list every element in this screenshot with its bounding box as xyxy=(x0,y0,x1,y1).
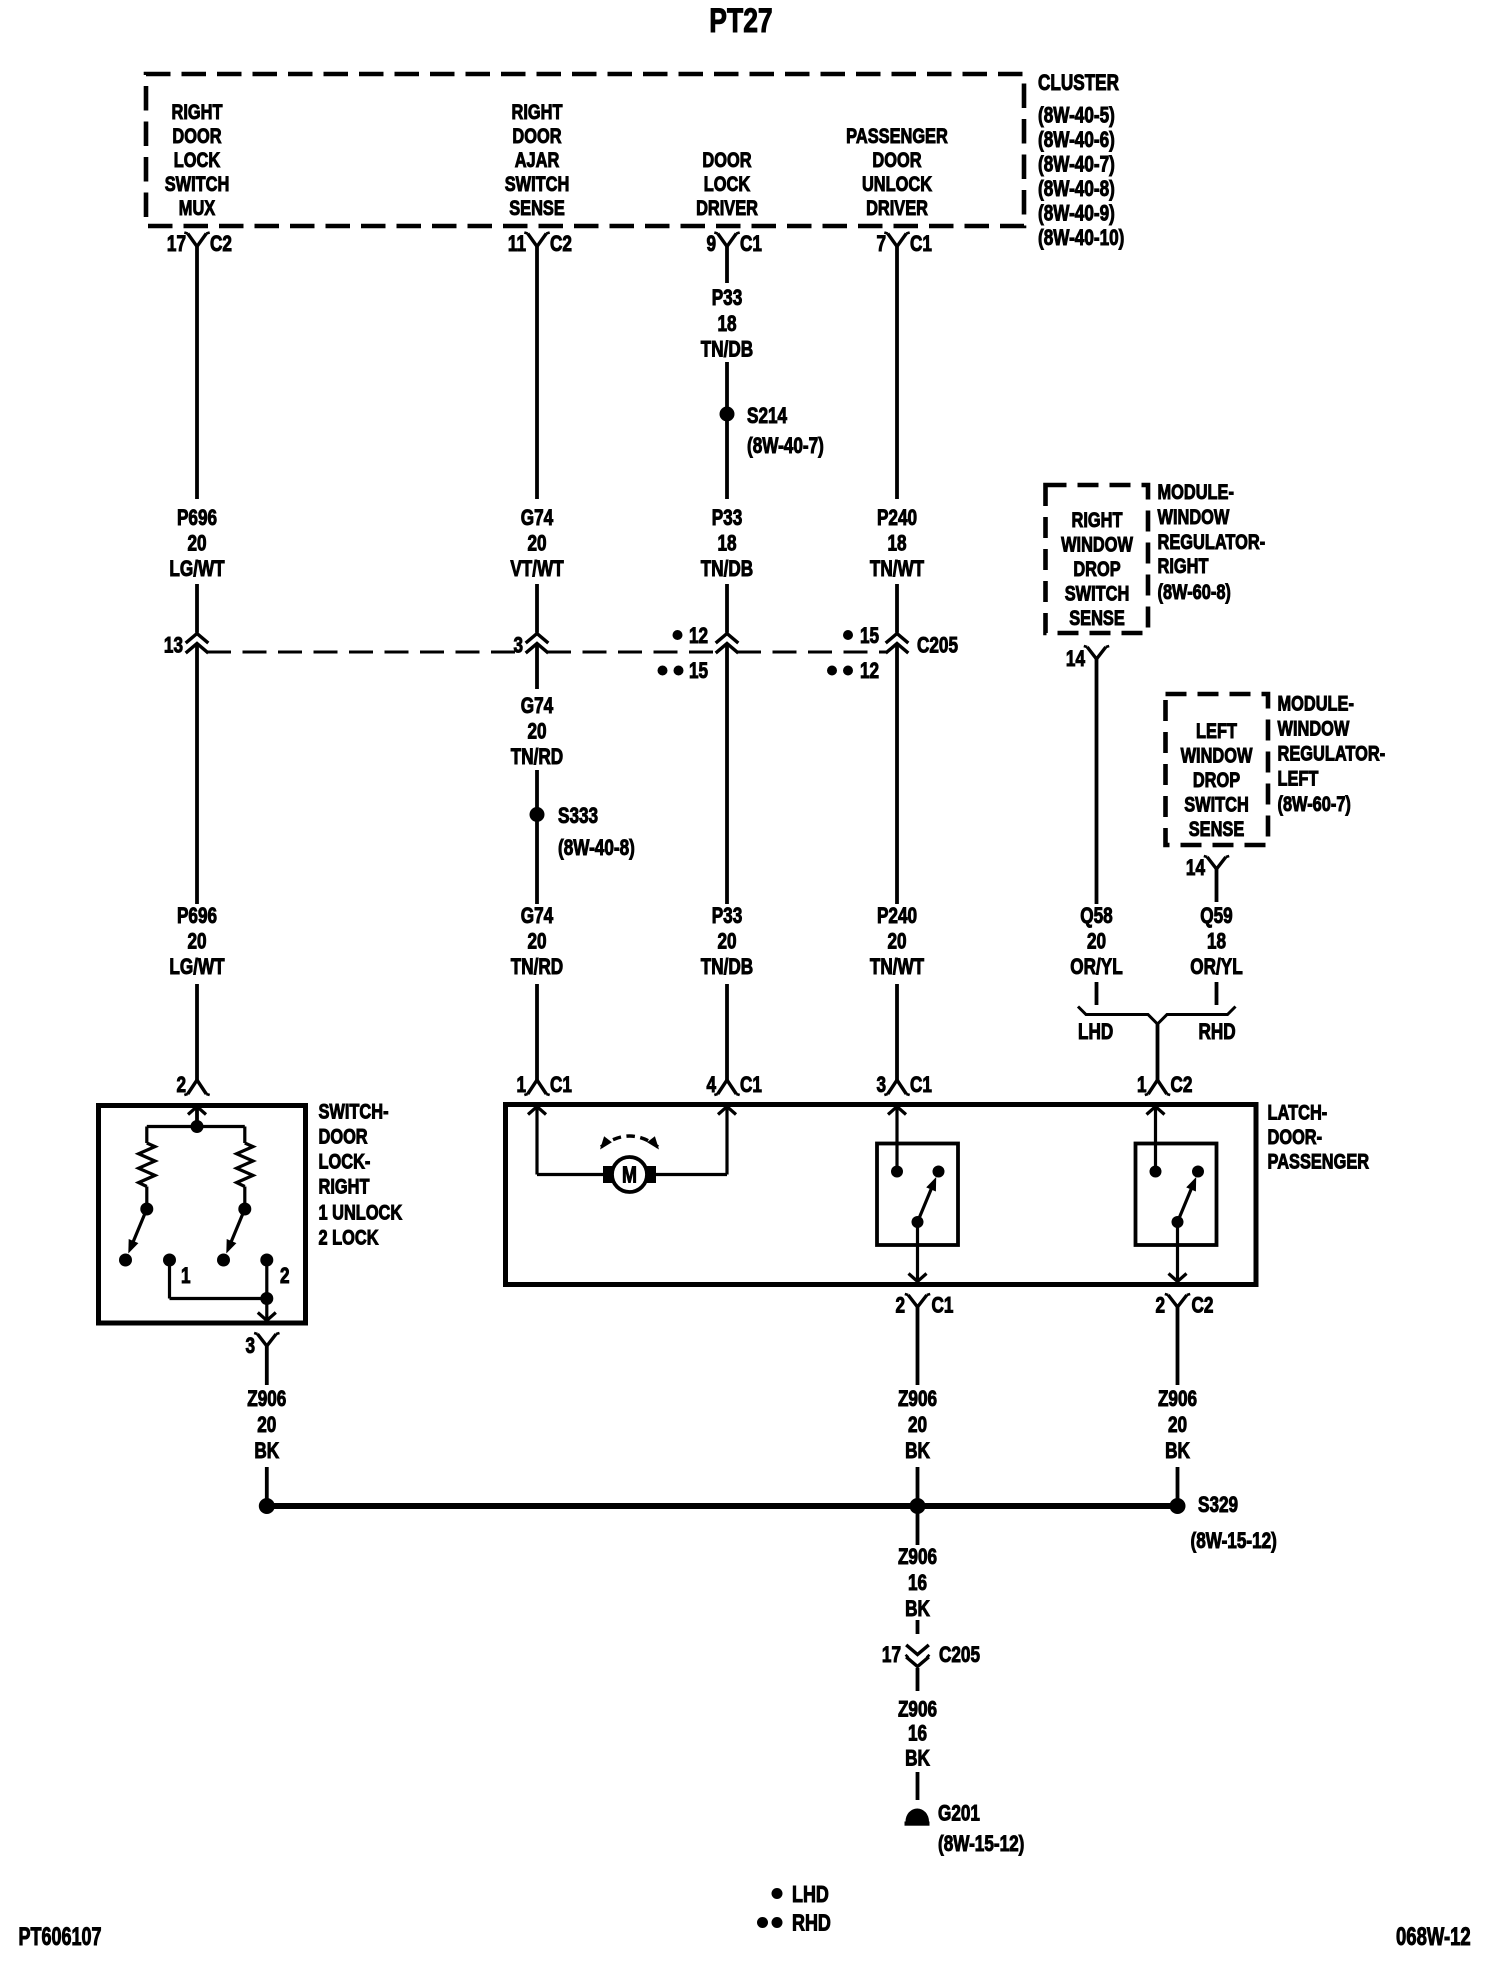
footer right 068W-12 xyxy=(1396,1922,1471,1950)
svg-text:OR/YL: OR/YL xyxy=(1190,955,1242,980)
latch-door-passenger box xyxy=(506,1105,1257,1285)
svg-text:3: 3 xyxy=(245,1334,255,1359)
svg-text:LG/WT: LG/WT xyxy=(169,557,224,582)
wire P33 below label with splice xyxy=(725,362,729,499)
svg-text:DROP: DROP xyxy=(1193,768,1240,791)
latch switch 2 contact xyxy=(1192,1166,1204,1178)
C205 connector chevrons x=197 xyxy=(186,634,209,654)
svg-text:SWITCH: SWITCH xyxy=(1184,793,1249,816)
wire segment above C205 x=897 xyxy=(895,584,899,633)
legend LHD xyxy=(772,1882,829,1908)
svg-text:WINDOW: WINDOW xyxy=(1158,505,1230,528)
latch pin 1 C2 xyxy=(1137,1073,1192,1098)
svg-text:C1: C1 xyxy=(740,232,762,257)
svg-text:Z906: Z906 xyxy=(247,1387,286,1412)
svg-text:BK: BK xyxy=(905,1439,930,1464)
wire segment above C205 x=727 xyxy=(725,584,729,633)
wire label Q59 18 OR/YL xyxy=(1190,904,1242,980)
svg-text:PT27: PT27 xyxy=(709,2,772,40)
junction node (pin3) xyxy=(260,1292,273,1305)
box label RIGHT WINDOW DROP SWITCH SENSE xyxy=(1061,508,1133,629)
svg-text:P33: P33 xyxy=(712,904,743,929)
cluster pin label: RIGHT DOOR LOCK SWITCH MUX xyxy=(165,100,230,219)
wire segment to pin x=897 xyxy=(895,984,899,1080)
svg-text:LATCH-: LATCH- xyxy=(1268,1101,1328,1124)
title PT27 xyxy=(709,2,772,40)
wire label Z906 20 BK (mid) xyxy=(898,1387,937,1464)
svg-text:C2: C2 xyxy=(550,232,572,257)
svg-text:17: 17 xyxy=(882,1643,901,1668)
module window regulator left box (dashed) xyxy=(1166,694,1269,845)
wire label Q58 20 OR/YL xyxy=(1070,904,1122,980)
svg-text:Z906: Z906 xyxy=(898,1545,937,1570)
svg-text:2 LOCK: 2 LOCK xyxy=(319,1226,379,1249)
wire Q58 stub below label xyxy=(1095,982,1099,1005)
resistor (unlock side) xyxy=(139,1127,155,1204)
svg-text:(8W-40-5): (8W-40-5) xyxy=(1038,104,1115,129)
C205 connector chevrons x=727 xyxy=(716,634,739,654)
svg-text:P33: P33 xyxy=(712,286,743,311)
svg-text:C205: C205 xyxy=(939,1643,980,1668)
module name MODULE-WINDOW REGULATOR-RIGHT xyxy=(1158,480,1266,603)
svg-text:WINDOW: WINDOW xyxy=(1181,744,1253,767)
C205 pin 12 (RHD) col4 xyxy=(827,659,879,684)
C205 pin 15 (LHD) col4 xyxy=(843,624,879,649)
latch switch 2 entry xyxy=(1147,1107,1165,1178)
svg-text:15: 15 xyxy=(689,659,708,684)
cluster pin label: DOOR LOCK DRIVER xyxy=(696,148,758,219)
switch box name SWITCH-DOOR LOCK-RIGHT xyxy=(319,1100,403,1249)
svg-text:TN/DB: TN/DB xyxy=(701,338,753,363)
svg-text:DOOR: DOOR xyxy=(172,124,221,147)
svg-text:DOOR: DOOR xyxy=(319,1125,368,1148)
svg-text:G74: G74 xyxy=(521,694,553,719)
svg-text:1 UNLOCK: 1 UNLOCK xyxy=(319,1201,403,1224)
svg-text:P696: P696 xyxy=(177,904,217,929)
wire P696 upper (col1) xyxy=(195,247,199,500)
wire Z906 from latch C1 xyxy=(916,1307,920,1385)
svg-text:7: 7 xyxy=(876,232,886,257)
svg-text:P240: P240 xyxy=(877,506,917,531)
wire label P33 20 TN/DB (lower) xyxy=(701,904,753,980)
svg-text:18: 18 xyxy=(887,532,906,557)
wire Z906 from switch xyxy=(265,1346,269,1385)
svg-text:SWITCH-: SWITCH- xyxy=(319,1100,389,1123)
svg-text:14: 14 xyxy=(1066,647,1085,672)
latch switch 1 entry xyxy=(888,1107,906,1178)
footer left PT606107 xyxy=(19,1922,102,1951)
svg-text:20: 20 xyxy=(257,1413,276,1438)
latch switch 2 exit wire xyxy=(1169,1222,1187,1282)
latch switch 1 exit wire xyxy=(909,1222,927,1282)
svg-text:P240: P240 xyxy=(877,904,917,929)
svg-text:SWITCH: SWITCH xyxy=(1065,582,1130,605)
switch-door lock-right box xyxy=(99,1106,306,1324)
svg-text:S214: S214 xyxy=(747,404,787,429)
svg-text:C1: C1 xyxy=(740,1073,762,1098)
svg-text:DROP: DROP xyxy=(1073,557,1120,580)
latch switch 1 box xyxy=(877,1144,958,1246)
svg-text:TN/DB: TN/DB xyxy=(701,955,753,980)
svg-text:Q59: Q59 xyxy=(1200,904,1232,929)
cluster name and sheet refs xyxy=(1038,71,1124,251)
svg-text:16: 16 xyxy=(908,1571,927,1596)
svg-text:DOOR: DOOR xyxy=(512,124,561,147)
label RHD xyxy=(1199,1020,1236,1045)
svg-text:Z906: Z906 xyxy=(1158,1387,1197,1412)
latch switch 1 contact xyxy=(933,1166,945,1178)
svg-text:RIGHT: RIGHT xyxy=(172,100,223,123)
svg-text:RIGHT: RIGHT xyxy=(1072,508,1123,531)
svg-text:12: 12 xyxy=(860,659,879,684)
svg-text:C1: C1 xyxy=(550,1073,572,1098)
wire Z906 below bus xyxy=(916,1506,920,1545)
splice S333 xyxy=(530,804,635,861)
connector pin 7 C1 (cluster) xyxy=(876,232,931,257)
splice S214 xyxy=(720,404,824,459)
wire to ground xyxy=(916,1772,920,1800)
svg-text:S333: S333 xyxy=(558,804,598,829)
in-line connector C205 dashed line xyxy=(207,651,887,654)
connector pin 14 (left module) xyxy=(1186,856,1229,881)
latch switch 2 arm xyxy=(1172,1177,1197,1228)
wire segment above C205 x=197 xyxy=(195,584,199,633)
svg-text:P696: P696 xyxy=(177,506,217,531)
svg-text:DRIVER: DRIVER xyxy=(866,196,928,219)
svg-text:MUX: MUX xyxy=(179,196,216,219)
svg-text:BK: BK xyxy=(254,1439,279,1464)
wire to bus x=266.8 xyxy=(265,1467,269,1506)
svg-text:TN/RD: TN/RD xyxy=(511,745,563,770)
svg-text:DOOR: DOOR xyxy=(872,148,921,171)
wire P33 middle (col3) xyxy=(725,645,729,904)
svg-text:LG/WT: LG/WT xyxy=(169,955,224,980)
box label LEFT WINDOW DROP SWITCH SENSE xyxy=(1181,719,1253,840)
svg-text:OR/YL: OR/YL xyxy=(1070,955,1122,980)
wire label Z906 20 BK (left) xyxy=(247,1387,286,1464)
wire label Z906 16 BK (upper) xyxy=(898,1545,937,1622)
motor rotation arc xyxy=(600,1136,659,1150)
svg-text:LOCK: LOCK xyxy=(174,148,221,171)
wire P33 upper (col3) xyxy=(725,247,729,284)
wire segment to pin x=727 xyxy=(725,984,729,1080)
svg-text:(8W-40-6): (8W-40-6) xyxy=(1038,128,1115,153)
svg-text:(8W-40-9): (8W-40-9) xyxy=(1038,202,1115,227)
svg-text:14: 14 xyxy=(1186,856,1205,881)
svg-text:SENSE: SENSE xyxy=(1069,606,1125,629)
wire label G74 20 TN/RD (middle) xyxy=(511,694,563,770)
connector pin 14 (right module) xyxy=(1066,646,1109,672)
latch pin 4 C1 xyxy=(706,1073,761,1098)
svg-text:M: M xyxy=(622,1162,637,1188)
svg-text:(8W-15-12): (8W-15-12) xyxy=(1191,1529,1277,1554)
latch switch 1 arm xyxy=(912,1177,937,1228)
svg-text:LHD: LHD xyxy=(1078,1020,1113,1045)
svg-text:CLUSTER: CLUSTER xyxy=(1038,71,1119,96)
junction node (pin2) xyxy=(191,1120,204,1133)
svg-text:Z906: Z906 xyxy=(898,1698,937,1723)
module window regulator right box (dashed) xyxy=(1046,485,1149,633)
svg-text:PT606107: PT606107 xyxy=(19,1922,102,1951)
C205 pin 13 xyxy=(164,634,183,659)
svg-text:11: 11 xyxy=(508,232,526,257)
motor entry wire 1 xyxy=(528,1107,603,1175)
svg-text:RIGHT: RIGHT xyxy=(319,1175,370,1198)
svg-text:C2: C2 xyxy=(1192,1294,1214,1319)
connector pin 17 C2 (cluster) xyxy=(167,232,232,257)
module name MODULE-WINDOW REGULATOR-LEFT xyxy=(1278,692,1386,816)
svg-text:VT/WT: VT/WT xyxy=(510,557,563,582)
svg-text:18: 18 xyxy=(717,532,736,557)
svg-text:C1: C1 xyxy=(910,232,932,257)
svg-text:20: 20 xyxy=(1087,930,1106,955)
svg-text:TN/DB: TN/DB xyxy=(701,557,753,582)
svg-text:MODULE-: MODULE- xyxy=(1278,692,1354,715)
wire branch horizontal xyxy=(147,1125,245,1128)
svg-text:20: 20 xyxy=(527,930,546,955)
svg-text:SWITCH: SWITCH xyxy=(505,172,570,195)
wire to bus x=1177.5 xyxy=(1176,1467,1180,1506)
svg-text:3: 3 xyxy=(513,634,523,659)
svg-text:20: 20 xyxy=(527,720,546,745)
wire G74 below C205 (col2) xyxy=(535,645,539,689)
svg-text:PASSENGER: PASSENGER xyxy=(846,124,948,147)
wire label P696 20 LG/WT xyxy=(169,506,224,582)
wire segment above C205 x=537 xyxy=(535,584,539,633)
svg-text:20: 20 xyxy=(187,930,206,955)
svg-text:G201: G201 xyxy=(938,1802,980,1827)
latch pin 2 C1 xyxy=(895,1294,953,1319)
svg-text:MODULE-: MODULE- xyxy=(1158,480,1234,503)
svg-text:(8W-60-7): (8W-60-7) xyxy=(1278,792,1351,815)
svg-text:20: 20 xyxy=(1168,1413,1187,1438)
switch arm (lock) xyxy=(226,1209,245,1254)
svg-text:(8W-60-8): (8W-60-8) xyxy=(1158,580,1231,603)
wire P240 upper (col4) xyxy=(895,247,899,500)
junction node mid xyxy=(910,1498,926,1514)
svg-text:20: 20 xyxy=(887,930,906,955)
splice bus S329 xyxy=(267,1503,1178,1509)
svg-text:2: 2 xyxy=(280,1264,290,1289)
svg-text:20: 20 xyxy=(717,930,736,955)
junction node left xyxy=(259,1498,275,1514)
svg-text:G74: G74 xyxy=(521,904,553,929)
svg-text:(8W-40-10): (8W-40-10) xyxy=(1038,226,1124,251)
cluster pin label: PASSENGER DOOR UNLOCK DRIVER xyxy=(846,124,948,219)
resistor (lock side) xyxy=(237,1127,253,1204)
wire label P696 20 LG/WT (lower) xyxy=(169,904,224,980)
C205 connector name xyxy=(917,634,958,659)
svg-text:WINDOW: WINDOW xyxy=(1061,533,1133,556)
svg-text:18: 18 xyxy=(1207,930,1226,955)
C205 pin 15 (RHD) col3 xyxy=(658,659,709,684)
svg-text:TN/WT: TN/WT xyxy=(870,955,924,980)
svg-text:C1: C1 xyxy=(932,1294,954,1319)
switch contact (lock pivot) xyxy=(238,1203,251,1216)
svg-text:TN/WT: TN/WT xyxy=(870,557,924,582)
svg-text:(8W-40-7): (8W-40-7) xyxy=(747,434,824,459)
svg-text:C2: C2 xyxy=(1171,1073,1193,1098)
svg-text:15: 15 xyxy=(860,624,879,649)
svg-text:BK: BK xyxy=(905,1597,930,1622)
wire label G74 20 TN/RD (lower) xyxy=(511,904,563,980)
svg-text:12: 12 xyxy=(689,624,708,649)
label LHD xyxy=(1078,1020,1113,1045)
wire label G74 20 VT/WT xyxy=(510,506,563,582)
svg-text:9: 9 xyxy=(706,232,716,257)
svg-text:WINDOW: WINDOW xyxy=(1278,717,1350,740)
svg-text:BK: BK xyxy=(905,1747,930,1772)
svg-text:RIGHT: RIGHT xyxy=(512,100,563,123)
svg-text:1: 1 xyxy=(181,1264,191,1289)
wire P240 middle (col4) xyxy=(895,645,899,904)
latch box name LATCH-DOOR-PASSENGER xyxy=(1268,1101,1370,1173)
C205 connector chevrons x=537 xyxy=(526,634,549,654)
wire G74 upper (col2) xyxy=(535,247,539,500)
svg-text:(8W-15-12): (8W-15-12) xyxy=(938,1832,1024,1857)
wire to bus x=917.5 xyxy=(916,1467,920,1506)
svg-text:G74: G74 xyxy=(521,506,553,531)
svg-text:068W-12: 068W-12 xyxy=(1396,1922,1471,1950)
switch pin 3 xyxy=(245,1333,279,1359)
svg-text:SWITCH: SWITCH xyxy=(165,172,230,195)
svg-text:RHD: RHD xyxy=(792,1910,831,1936)
svg-text:C205: C205 xyxy=(917,634,958,659)
wire segment xyxy=(916,1620,920,1634)
wire segment to pin x=537 xyxy=(535,984,539,1080)
svg-text:P33: P33 xyxy=(712,506,743,531)
C205 pin 3 xyxy=(513,634,523,659)
svg-text:20: 20 xyxy=(527,532,546,557)
legend RHD xyxy=(757,1910,831,1936)
svg-text:BK: BK xyxy=(1165,1439,1190,1464)
svg-text:20: 20 xyxy=(187,532,206,557)
svg-text:C2: C2 xyxy=(210,232,232,257)
C205 connector chevrons x=897 xyxy=(886,634,909,654)
wire G74 with splice S333 xyxy=(535,770,539,904)
in-line connector 17 C205 xyxy=(882,1643,980,1668)
svg-text:RHD: RHD xyxy=(1199,1020,1236,1045)
contact dot (right) xyxy=(217,1254,230,1267)
wire label Z906 20 BK (right) xyxy=(1158,1387,1197,1464)
switch contact (unlock pivot) xyxy=(140,1203,153,1216)
C205 pin 12 (LHD) col3 xyxy=(673,624,709,649)
wire label P33 18 TN/DB xyxy=(701,506,753,582)
connector pin 11 C2 (cluster) xyxy=(508,232,572,257)
svg-text:LHD: LHD xyxy=(792,1882,829,1908)
svg-text:AJAR: AJAR xyxy=(515,148,560,171)
switch pin 2 xyxy=(176,1073,209,1098)
latch pin 2 C2 xyxy=(1155,1294,1213,1319)
svg-text:2: 2 xyxy=(1155,1294,1165,1319)
wire Q58 upper xyxy=(1095,659,1099,904)
cluster pin label: RIGHT DOOR AJAR SWITCH SENSE xyxy=(505,100,570,219)
svg-text:C1: C1 xyxy=(910,1073,932,1098)
exit wire with arrow xyxy=(258,1299,276,1321)
svg-text:LOCK: LOCK xyxy=(704,172,751,195)
svg-text:DOOR: DOOR xyxy=(702,148,751,171)
wire contact2 to junction xyxy=(265,1260,268,1299)
svg-text:(8W-40-8): (8W-40-8) xyxy=(558,836,635,861)
wire label P240 18 TN/WT xyxy=(870,506,924,582)
svg-text:16: 16 xyxy=(908,1722,927,1747)
switch arm (unlock) xyxy=(128,1209,147,1254)
ground G201 xyxy=(905,1802,1025,1857)
svg-text:RIGHT: RIGHT xyxy=(1158,554,1209,577)
svg-text:LEFT: LEFT xyxy=(1278,767,1319,790)
wire P696 middle (col1) xyxy=(195,645,199,904)
wire label P240 20 TN/WT (lower) xyxy=(870,904,924,980)
merged wire to latch xyxy=(1156,1024,1160,1080)
cluster box (dashed) xyxy=(146,74,1024,226)
contact 2 xyxy=(260,1254,289,1289)
svg-text:DRIVER: DRIVER xyxy=(696,196,758,219)
svg-text:20: 20 xyxy=(908,1413,927,1438)
svg-text:PASSENGER: PASSENGER xyxy=(1268,1150,1370,1173)
svg-text:2: 2 xyxy=(895,1294,905,1319)
svg-text:S329: S329 xyxy=(1198,1493,1238,1518)
svg-text:Q58: Q58 xyxy=(1080,904,1112,929)
svg-text:13: 13 xyxy=(164,634,183,659)
svg-text:UNLOCK: UNLOCK xyxy=(862,172,932,195)
svg-text:DOOR-: DOOR- xyxy=(1268,1125,1323,1148)
wire below C205 xyxy=(916,1668,920,1691)
wire segment to pin x=197 xyxy=(195,984,199,1080)
latch switch 2 box xyxy=(1136,1144,1217,1246)
junction node right xyxy=(1170,1498,1186,1514)
latch pin 3 C1 xyxy=(876,1073,931,1098)
LHD/RHD merge brace xyxy=(1078,1007,1236,1025)
svg-text:SENSE: SENSE xyxy=(1189,817,1245,840)
svg-text:17: 17 xyxy=(167,232,186,257)
svg-text:REGULATOR-: REGULATOR- xyxy=(1158,530,1266,553)
wire Z906 from latch C2 xyxy=(1176,1307,1180,1385)
svg-text:18: 18 xyxy=(717,312,736,337)
svg-text:TN/RD: TN/RD xyxy=(511,955,563,980)
svg-text:LOCK-: LOCK- xyxy=(319,1150,371,1173)
wire Q59 upper xyxy=(1215,869,1219,902)
wire label P33 18 TN/DB (upper) xyxy=(701,286,753,362)
svg-text:(8W-40-8): (8W-40-8) xyxy=(1038,177,1115,202)
svg-text:LEFT: LEFT xyxy=(1196,719,1237,742)
svg-text:SENSE: SENSE xyxy=(509,196,565,219)
svg-text:Z906: Z906 xyxy=(898,1387,937,1412)
splice name S329 xyxy=(1191,1493,1277,1554)
wire label Z906 16 BK (lower) xyxy=(898,1698,937,1772)
contact 1 xyxy=(163,1254,191,1289)
contact dot (left) xyxy=(119,1254,132,1267)
motor M1 (door lock) xyxy=(603,1157,656,1192)
latch pin 1 C1 xyxy=(516,1073,571,1098)
wire Q59 stub below label xyxy=(1215,982,1219,1005)
wire contact1 to junction xyxy=(170,1260,267,1299)
entry arrow pin2 xyxy=(188,1107,206,1127)
motor exit wire 4 xyxy=(656,1107,736,1175)
svg-text:REGULATOR-: REGULATOR- xyxy=(1278,742,1386,765)
svg-text:(8W-40-7): (8W-40-7) xyxy=(1038,153,1115,178)
connector pin 9 C1 (cluster) xyxy=(706,232,761,257)
